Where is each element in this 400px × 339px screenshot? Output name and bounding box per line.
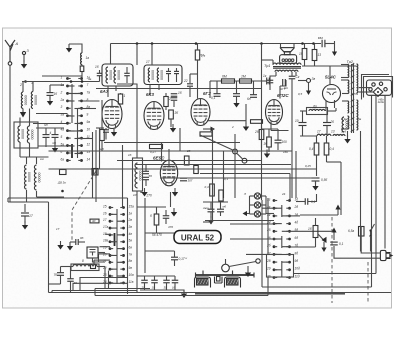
ground — [172, 188, 178, 197]
wire — [314, 61, 316, 67]
svg-text:15а: 15а — [129, 204, 135, 208]
resistor R1 — [118, 94, 122, 104]
svg-text:НВг: НВг — [379, 98, 385, 102]
svg-text:10в: 10в — [129, 273, 135, 277]
bus — [205, 220, 274, 222]
wire — [61, 266, 74, 268]
svg-text:2а: 2а — [60, 98, 65, 102]
wire — [291, 79, 293, 84]
arrow — [306, 83, 311, 96]
svg-text:9в: 9в — [129, 266, 133, 270]
junction — [61, 190, 64, 193]
wire — [110, 227, 117, 229]
svg-text:6,3в: 6,3в — [341, 117, 347, 121]
capacitor — [275, 140, 282, 143]
resistor R2 — [100, 130, 104, 141]
coil — [135, 163, 143, 188]
wire — [250, 195, 255, 197]
svg-text:7: 7 — [87, 83, 89, 87]
wire — [302, 126, 304, 137]
wire — [315, 238, 317, 248]
wire — [29, 109, 31, 127]
svg-text:0,4: 0,4 — [309, 147, 314, 151]
wire — [304, 44, 306, 49]
wire — [247, 266, 249, 269]
wire — [82, 108, 97, 110]
tube V4 6P2S — [266, 100, 283, 125]
svg-text:22: 22 — [183, 79, 188, 83]
svg-text:1б: 1б — [178, 91, 182, 95]
svg-text:6П2С: 6П2С — [277, 93, 289, 98]
svg-text:9а: 9а — [87, 120, 91, 124]
wire — [291, 72, 293, 76]
svg-text:1б: 1б — [172, 286, 176, 290]
svg-text:2б: 2б — [254, 130, 259, 134]
wire — [314, 44, 316, 50]
wire diagonal — [200, 135, 233, 150]
wire — [212, 128, 214, 205]
svg-text:6К3: 6К3 — [146, 92, 154, 97]
svg-text:0,25: 0,25 — [305, 164, 311, 168]
wire — [261, 200, 263, 287]
svg-text:12: 12 — [87, 142, 91, 146]
wire — [8, 197, 128, 199]
svg-text:3аб: 3аб — [341, 130, 346, 134]
svg-text:URAL 52: URAL 52 — [181, 234, 215, 243]
bus — [95, 295, 268, 297]
tube V5 5Ц4С rectifier — [323, 85, 341, 103]
wire — [165, 210, 167, 216]
junction — [195, 42, 198, 45]
wire — [250, 204, 255, 206]
potentiometer volume — [222, 259, 230, 272]
svg-text:мб: мб — [100, 147, 104, 151]
svg-text:6в: 6в — [129, 246, 133, 250]
resistor R11 — [324, 143, 329, 155]
svg-text:2в: 2в — [128, 218, 133, 222]
capacitor — [57, 273, 64, 276]
wire — [271, 130, 289, 132]
capacitor — [208, 209, 215, 212]
svg-text:1а: 1а — [61, 83, 65, 87]
bus heavy bottom — [195, 293, 345, 295]
wire — [209, 81, 211, 98]
wire — [145, 232, 175, 234]
junction — [24, 80, 27, 83]
wire — [253, 81, 255, 95]
switch bar dark P2 — [114, 233, 116, 246]
wire — [126, 76, 128, 83]
svg-text:16: 16 — [103, 211, 107, 215]
wire — [68, 85, 75, 87]
wire — [165, 218, 167, 224]
svg-text:7в: 7в — [129, 252, 133, 256]
wire — [176, 74, 178, 82]
coil — [114, 67, 121, 83]
svg-text:14: 14 — [87, 157, 91, 161]
wire — [274, 238, 282, 240]
core arrow L2 — [20, 109, 26, 118]
wire — [29, 143, 31, 157]
wire — [69, 44, 82, 53]
bus screen — [96, 88, 262, 90]
svg-text:127в: 127в — [352, 92, 359, 96]
ground — [344, 135, 350, 144]
wire — [277, 143, 279, 150]
wire — [220, 202, 222, 209]
wire — [302, 111, 304, 123]
contact numbers — [128, 204, 135, 283]
wire — [282, 246, 290, 248]
switch bank P3 right contacts — [286, 199, 291, 279]
wire — [165, 93, 167, 97]
svg-text:пФ: пФ — [52, 141, 57, 145]
capacitor — [103, 130, 109, 132]
choke Dr2 — [333, 135, 345, 137]
wire — [94, 289, 96, 296]
resistor R14 — [184, 156, 189, 165]
svg-text:30Г: 30Г — [188, 179, 193, 183]
capacitor — [143, 177, 149, 179]
wire — [154, 276, 156, 280]
bus — [200, 173, 290, 175]
ground — [141, 188, 147, 197]
resistor R9 — [312, 50, 317, 61]
bus — [160, 177, 317, 179]
ground — [181, 290, 187, 299]
svg-text:Зв: Зв — [312, 77, 316, 81]
coil — [157, 68, 164, 82]
switch bank P3 frame — [267, 255, 294, 278]
svg-text:0,5: 0,5 — [298, 92, 303, 96]
svg-text:4а: 4а — [61, 128, 65, 132]
arrow feedback — [335, 205, 340, 216]
bus — [49, 150, 293, 152]
coil — [148, 68, 155, 82]
coil Tr1 primary — [273, 63, 301, 65]
capacitor — [166, 71, 171, 73]
wire — [279, 86, 281, 99]
arrow down — [321, 242, 326, 252]
arrow lamp feed — [243, 211, 250, 216]
svg-text:3б: 3б — [175, 111, 179, 115]
capacitor — [322, 40, 325, 48]
bus — [135, 164, 291, 166]
wire — [280, 44, 282, 48]
wire — [275, 72, 277, 76]
wire — [26, 190, 28, 202]
wire — [136, 84, 138, 158]
wire — [140, 191, 142, 193]
junction — [70, 80, 73, 83]
resistor R17 — [259, 130, 264, 140]
svg-text:20: 20 — [330, 120, 335, 124]
wire — [101, 141, 103, 152]
wire — [300, 110, 307, 112]
ground — [21, 60, 27, 69]
coil Tr2 winding 1 — [348, 65, 349, 78]
wire — [174, 283, 176, 290]
wire — [22, 81, 100, 83]
wire — [341, 64, 348, 66]
bus — [104, 142, 240, 144]
wire antenna lead — [8, 65, 10, 202]
arrow up small — [331, 228, 336, 241]
wire — [98, 252, 105, 254]
coil Tr2 winding 3 — [348, 101, 349, 113]
wire — [70, 241, 76, 243]
wire — [290, 230, 333, 232]
wire — [81, 65, 83, 67]
svg-text:470: 470 — [168, 225, 173, 229]
wire — [127, 198, 129, 294]
wire lamp rail — [249, 196, 251, 214]
wire — [117, 220, 124, 222]
wire — [70, 281, 72, 292]
svg-text:4: 4 — [50, 131, 52, 135]
speaker — [280, 48, 297, 64]
wire — [137, 275, 175, 277]
capacitor C 17 — [21, 213, 29, 216]
resistor R19 — [154, 214, 159, 225]
wire — [68, 115, 75, 117]
svg-text:30: 30 — [164, 286, 168, 290]
svg-text:0,1: 0,1 — [339, 242, 344, 246]
svg-text:0,4: 0,4 — [330, 147, 335, 151]
wire — [302, 65, 357, 67]
choke Dr1 — [317, 134, 331, 136]
wire — [26, 157, 28, 164]
tube V3 6G2 — [191, 99, 210, 126]
wire — [145, 250, 175, 252]
wire — [342, 93, 348, 95]
wire — [183, 290, 185, 292]
wire — [326, 126, 328, 137]
wire top B+ bus — [111, 43, 322, 45]
wire — [280, 80, 286, 86]
wire — [51, 291, 53, 293]
wire — [236, 96, 238, 100]
wire — [20, 156, 49, 158]
wire — [36, 127, 64, 129]
svg-text:2: 2 — [231, 125, 234, 129]
wire — [49, 283, 61, 285]
coil — [342, 117, 349, 132]
wire — [82, 138, 93, 140]
wire — [19, 118, 21, 127]
svg-text:5Ц4С: 5Ц4С — [325, 75, 337, 80]
svg-text:6Е5С: 6Е5С — [153, 156, 165, 161]
wire — [272, 60, 274, 65]
svg-text:9д: 9д — [295, 259, 299, 263]
resistor R14b — [194, 166, 199, 174]
wire — [250, 213, 255, 215]
coil Tr2 winding 2 — [348, 80, 349, 93]
capacitor — [250, 95, 257, 98]
wire — [116, 209, 118, 284]
wire — [37, 196, 65, 198]
wire — [384, 95, 386, 248]
wire — [304, 60, 306, 67]
capacitor — [289, 76, 296, 79]
wire — [296, 201, 305, 203]
wire — [174, 260, 176, 266]
svg-text:5: 5 — [61, 135, 63, 139]
capacitor — [214, 94, 221, 97]
wire — [50, 84, 64, 86]
coil — [34, 165, 41, 190]
wire — [335, 108, 337, 111]
wire — [261, 126, 263, 130]
trimmer between gang — [215, 277, 223, 284]
wire — [170, 192, 172, 207]
wire — [281, 205, 283, 217]
wire — [156, 225, 158, 233]
wire — [120, 93, 122, 94]
wire — [151, 44, 153, 66]
capacitor — [143, 171, 149, 173]
svg-text:1б: 1б — [95, 65, 99, 69]
svg-text:15: 15 — [103, 204, 107, 208]
bus long bottom — [49, 292, 392, 294]
svg-text:30: 30 — [92, 219, 96, 223]
coil — [18, 126, 25, 142]
svg-text:2д: 2д — [294, 205, 299, 209]
padder capacitor box — [87, 247, 98, 258]
svg-text:6н: 6н — [247, 97, 251, 101]
contact numbers — [294, 197, 301, 278]
svg-text:Тр2: Тр2 — [347, 60, 354, 64]
transformer Tr2 core — [352, 64, 354, 133]
svg-text:ЛЗ: ЛЗ — [199, 53, 204, 57]
wire — [220, 212, 222, 216]
wire — [203, 201, 228, 203]
wire — [104, 267, 106, 289]
wire — [99, 128, 101, 169]
coil can outline — [14, 122, 38, 148]
svg-text:11в: 11в — [129, 280, 134, 284]
wire shaft — [229, 262, 256, 267]
wire — [289, 174, 291, 201]
capacitor — [163, 280, 170, 283]
wire — [262, 59, 274, 61]
svg-text:17: 17 — [29, 214, 33, 218]
wire — [274, 269, 282, 271]
wire — [10, 201, 25, 203]
antenna A1 — [5, 40, 15, 65]
wire — [101, 100, 103, 130]
capacitor — [330, 242, 338, 245]
svg-text:10: 10 — [295, 119, 299, 123]
resistor R18 — [267, 137, 272, 147]
wire — [144, 276, 146, 280]
svg-text:13: 13 — [331, 130, 335, 134]
wire — [166, 283, 168, 290]
svg-text:100: 100 — [282, 140, 288, 144]
wire — [93, 258, 106, 262]
wire — [97, 266, 105, 268]
dashed tuning linkage — [72, 171, 96, 240]
wire — [75, 93, 82, 95]
wire — [274, 207, 282, 209]
wire — [45, 128, 47, 134]
svg-text:19: 19 — [103, 246, 107, 250]
resistor R12 — [150, 144, 163, 148]
svg-text:1: 1 — [124, 94, 126, 98]
variable capacitor gang section 1 — [197, 279, 209, 286]
wire — [291, 84, 293, 198]
wire — [110, 268, 117, 270]
wire — [267, 198, 269, 255]
wire — [75, 123, 82, 125]
coil — [25, 165, 32, 189]
wire — [99, 70, 101, 73]
wire — [179, 128, 181, 151]
capacitor — [141, 280, 148, 283]
wire — [95, 169, 97, 178]
ground — [233, 99, 239, 108]
switch bank P2 left contacts — [109, 206, 114, 284]
wire — [54, 138, 56, 146]
resistor R L1 — [80, 66, 84, 72]
wire — [269, 83, 271, 90]
wire — [165, 107, 167, 111]
dashed chassis line 2 — [367, 262, 369, 303]
svg-text:1г: 1г — [263, 74, 267, 78]
wire — [68, 130, 75, 132]
wire — [19, 142, 21, 157]
contact numbers — [102, 204, 109, 283]
wire — [190, 73, 198, 75]
wire — [197, 74, 199, 99]
wire — [361, 236, 380, 253]
svg-text:0,1: 0,1 — [211, 96, 216, 100]
wire — [223, 151, 225, 198]
wire loop — [73, 283, 128, 290]
wire — [207, 120, 246, 122]
variable capacitor frame 2 — [225, 277, 241, 288]
wire — [49, 96, 51, 99]
wire — [140, 289, 184, 291]
node — [256, 259, 260, 263]
arrow pot tap — [318, 234, 327, 243]
svg-text:6а: 6а — [61, 157, 65, 161]
tube V6 6E5S magic eye — [160, 160, 177, 186]
wire — [216, 81, 218, 94]
svg-text:56 470: 56 470 — [152, 233, 162, 237]
svg-text:8: 8 — [82, 259, 84, 263]
wire — [36, 157, 38, 164]
wire — [93, 260, 95, 264]
capacitor — [217, 209, 224, 212]
ground — [243, 123, 249, 132]
wire — [300, 135, 317, 137]
junction — [81, 80, 84, 83]
ground — [312, 182, 318, 191]
svg-text:2: 2 — [60, 90, 63, 94]
resistor R4 — [169, 110, 174, 119]
ground — [111, 128, 117, 137]
wire — [117, 275, 124, 277]
wire — [176, 68, 178, 71]
wire — [154, 283, 156, 290]
svg-text:1а: 1а — [86, 56, 90, 60]
svg-text:5а: 5а — [61, 142, 65, 146]
capacitor — [171, 257, 178, 260]
resistor R16 — [219, 190, 223, 201]
wire — [290, 246, 316, 248]
wire — [316, 136, 318, 143]
